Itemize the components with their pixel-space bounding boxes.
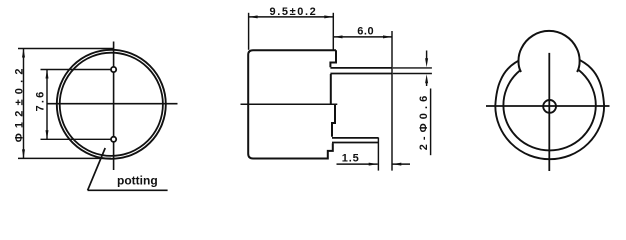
inner circle bottom view xyxy=(503,60,595,150)
arrow right 9.5 xyxy=(324,15,333,18)
extension line 9.5 left xyxy=(248,13,250,50)
arrow up 7.6 xyxy=(46,70,49,79)
top pin upper line xyxy=(330,67,392,69)
svg-text:9.5±0.2: 9.5±0.2 xyxy=(270,6,318,18)
bottom pin lower line xyxy=(332,142,378,144)
bump white mask xyxy=(518,31,579,72)
phi0.6 dim arrow down xyxy=(426,51,428,62)
arrow left 9.5 xyxy=(249,15,258,18)
body outline top left bottom xyxy=(248,50,336,158)
outer boundary right flare xyxy=(576,58,604,105)
phi0.6 dim arrow up xyxy=(426,81,428,87)
svg-text:Φ12±0.2: Φ12±0.2 xyxy=(13,63,25,142)
extension line from top pin xyxy=(41,69,111,71)
extension line at circle top xyxy=(18,48,114,50)
leader line beside 2-phi0.6 text xyxy=(430,89,432,156)
inner circle of buzzer top view xyxy=(60,53,163,156)
svg-text:7.6: 7.6 xyxy=(35,90,47,112)
arrow down 7.6 xyxy=(46,130,49,139)
leader underline xyxy=(88,189,168,191)
dimension line 1.5 right tail xyxy=(392,163,410,165)
phi0.6 extension line upper xyxy=(393,67,432,69)
vertical centerline through pins xyxy=(113,42,115,171)
arrow left 6.0 xyxy=(334,35,343,38)
phi0.6 extension line lower xyxy=(393,73,432,75)
arrow left-pointing 1.5 xyxy=(392,163,401,166)
dimension line 1.5 left tail xyxy=(337,163,378,165)
pin bottom (left view) xyxy=(111,137,116,142)
outer circle of buzzer top view xyxy=(57,50,166,159)
dimension line 6.0 xyxy=(334,36,393,38)
leader line to potting xyxy=(88,148,106,190)
extension line 9.5 right xyxy=(332,13,334,50)
pin top (left view) xyxy=(111,67,116,72)
dimension line 9.5 xyxy=(249,16,334,18)
body right edge upper step xyxy=(330,50,336,67)
outer boundary left flare xyxy=(495,58,523,105)
svg-text:2-Φ0.6: 2-Φ0.6 xyxy=(418,92,430,151)
dimension line phi12 xyxy=(23,49,25,159)
extension line from bottom pin xyxy=(41,138,111,140)
svg-text:potting: potting xyxy=(117,174,158,188)
crosshair horizontal xyxy=(486,105,610,107)
top pin lower line xyxy=(330,73,392,75)
svg-text:6.0: 6.0 xyxy=(357,25,374,37)
outer boundary lower arc xyxy=(495,106,604,160)
seam line across body xyxy=(241,103,338,105)
svg-text:1.5: 1.5 xyxy=(342,153,360,165)
body right edge lower step xyxy=(332,104,335,137)
horizontal centerline left view xyxy=(47,103,178,105)
arrow down phi12 xyxy=(22,149,25,158)
extension line pin end x392 xyxy=(391,31,393,171)
bump outline xyxy=(518,31,579,72)
bottom pin upper line xyxy=(332,137,378,139)
extension line at circle bottom xyxy=(18,157,111,159)
dimension line 7.6 xyxy=(46,70,48,140)
arrow right 6.0 xyxy=(383,35,392,38)
center hole xyxy=(543,100,556,113)
body right edge mid xyxy=(330,74,332,104)
arrow up phi12 xyxy=(22,49,25,58)
arrow right-pointing 1.5 xyxy=(369,163,378,166)
extension line bottom pin end x378 xyxy=(377,138,379,171)
crosshair vertical xyxy=(548,53,550,171)
